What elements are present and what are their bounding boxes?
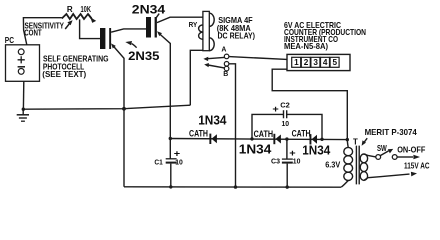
2N34 collector lead to relay: [157, 17, 203, 22]
transformer core: [356, 146, 359, 185]
photocell plus sign: [18, 56, 25, 63]
svg-text:1N34: 1N34: [198, 113, 227, 128]
node: photocell ground junction: [22, 108, 25, 111]
capacitor C3 plates: [282, 158, 293, 160]
photocell + terminal circle: [18, 49, 24, 55]
ground symbol: [22, 109, 24, 114]
svg-text:10K: 10K: [81, 5, 92, 14]
node: C1 bottom: [169, 185, 172, 188]
svg-text:10: 10: [293, 157, 301, 166]
svg-text:R: R: [67, 5, 73, 14]
terminal numbers 1-5: [294, 58, 337, 67]
contact arm B with arrow: [208, 65, 224, 68]
2N35 label pointer arrow: [132, 44, 137, 48]
2N34 emitter lead with arrow: [159, 33, 170, 158]
svg-text:5: 5: [333, 58, 338, 67]
wire: switch to 115VAC arrow: [397, 156, 413, 158]
transistor Q1 2N35 (bar style): [100, 28, 111, 49]
svg-text:(SEE TEXT): (SEE TEXT): [42, 70, 86, 79]
wire: counter box bottom to transformer secondary top: [272, 69, 347, 139]
svg-text:CATH: CATH: [189, 128, 208, 138]
svg-text:4: 4: [323, 58, 328, 67]
svg-text:MERIT P-3074: MERIT P-3074: [365, 128, 418, 137]
svg-text:MEA-N5-8A): MEA-N5-8A): [284, 41, 328, 51]
2N35 collector lead: [111, 29, 146, 32]
pot wiper arrow: [65, 23, 70, 29]
arrowhead 115VAC bottom: [411, 172, 417, 177]
relay contact A terminal: [224, 54, 229, 59]
svg-text:C3: C3: [271, 157, 280, 166]
svg-text:CATH: CATH: [254, 129, 274, 139]
ground wire (horizontal): [23, 105, 190, 109]
relay RY coil: [203, 11, 209, 50]
svg-text:10: 10: [175, 158, 183, 167]
photocell PC box: [6, 45, 40, 82]
svg-text:ON-OFF: ON-OFF: [397, 144, 425, 154]
svg-text:+: +: [272, 104, 278, 114]
svg-text:6.3V: 6.3V: [325, 160, 341, 169]
wire: C1 bottom lead: [170, 164, 172, 187]
bottom rail wire: [124, 186, 341, 188]
svg-text:A: A: [221, 44, 227, 53]
diode D1 1N34: [209, 134, 217, 144]
svg-text:SW: SW: [377, 144, 387, 153]
wire: C3 bottom lead: [286, 164, 288, 188]
wire: photocell bottom lead: [22, 81, 24, 109]
capacitor C2 loop wires: [252, 114, 322, 139]
resistor R 10K (potentiometer zigzag): [62, 14, 92, 19]
transformer primary bottom lead: [364, 174, 409, 180]
node: C2 left junction: [250, 137, 253, 140]
svg-text:3: 3: [313, 58, 318, 67]
transformer primary top lead: [364, 154, 376, 157]
node: C3 top junction: [285, 137, 288, 140]
wire: wiper to 2N35 base: [80, 19, 100, 38]
switch SW circle 1: [376, 155, 381, 160]
resistor end arrowhead: [90, 17, 96, 23]
svg-text:2N34: 2N34: [132, 5, 166, 17]
svg-text:C2: C2: [280, 101, 290, 110]
node: contact B line bottom: [234, 185, 237, 188]
svg-text:1N34: 1N34: [302, 143, 331, 158]
transistor Q2 2N34 (bar style): [146, 17, 157, 38]
svg-text:1: 1: [294, 58, 299, 67]
node: transformer secondary top junction: [346, 138, 349, 141]
counter terminal box: [287, 54, 350, 70]
node: C2 right junction: [320, 138, 323, 141]
junction: emitter line to ground wire: [122, 107, 126, 111]
terminal squares 1-5: [292, 57, 339, 67]
wire: C3 top lead: [286, 139, 288, 159]
contact arm A with arrow: [208, 57, 225, 58]
wire: relay coil bottom lead to ground line: [190, 50, 203, 105]
capacitor C1 plates: [166, 158, 177, 160]
MERIT pointer arrow: [364, 138, 367, 142]
capacitor C2 plates: [284, 110, 287, 118]
svg-text:2N35: 2N35: [128, 51, 160, 63]
svg-text:115V AC: 115V AC: [404, 162, 430, 171]
svg-text:DC RELAY): DC RELAY): [218, 31, 256, 41]
rectifier row wire: [170, 139, 347, 140]
svg-text:2: 2: [304, 58, 309, 67]
svg-text:B: B: [223, 69, 228, 78]
photocell - terminal circle: [18, 69, 24, 75]
2N35 emitter lead with arrow: [113, 46, 124, 187]
2N34 label pointer: [156, 14, 159, 18]
svg-text:1N34: 1N34: [239, 142, 272, 157]
switch SW circle 2: [392, 155, 397, 160]
relay contact B terminals: [224, 62, 229, 67]
wire: photocell top lead to pot left end: [23, 18, 61, 45]
wire: contact A to counter: [229, 57, 287, 60]
transformer T secondary top lead: [346, 140, 349, 148]
svg-text:C1: C1: [154, 157, 163, 166]
wire: contact B down to bottom rail: [229, 64, 236, 187]
svg-text:CATH: CATH: [292, 129, 311, 139]
switch arm with arrow: [380, 151, 388, 156]
svg-text:10: 10: [282, 119, 290, 128]
transformer secondary bottom lead: [341, 181, 348, 188]
transformer T secondary winding: [344, 147, 353, 155]
svg-text:RY: RY: [189, 20, 198, 29]
svg-text:CONT: CONT: [24, 28, 42, 38]
svg-text:PC: PC: [5, 36, 14, 45]
node: C1 top junction: [169, 137, 172, 140]
diode D2 1N34: [273, 134, 281, 144]
transformer primary winding: [360, 154, 367, 163]
arrowhead 115VAC top: [413, 155, 420, 159]
diode D3 1N34: [310, 134, 318, 144]
node: C3 bottom: [286, 185, 289, 188]
photocell minus overbar: [18, 66, 25, 68]
svg-text:T: T: [353, 137, 358, 146]
